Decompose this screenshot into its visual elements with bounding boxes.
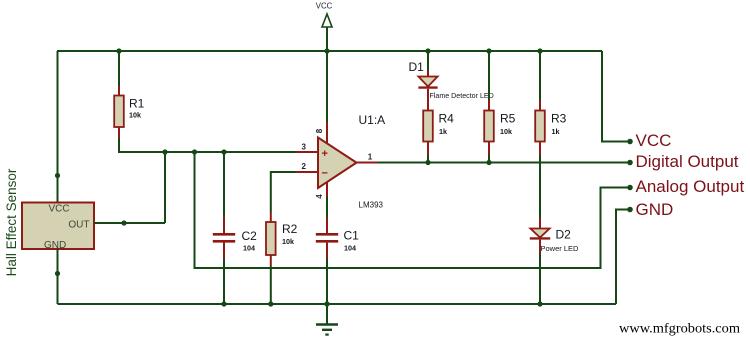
svg-text:U1:A: U1:A bbox=[359, 113, 386, 127]
resistor R2 bbox=[266, 212, 276, 266]
node: dot on left vertical bbox=[55, 173, 60, 178]
node: dot on sensor GND wire bbox=[55, 271, 60, 276]
svg-text:3: 3 bbox=[302, 143, 307, 152]
svg-text:www.mfgrobots.com: www.mfgrobots.com bbox=[619, 322, 740, 337]
node: dot on OUT row bbox=[121, 220, 126, 225]
svg-text:Power LED: Power LED bbox=[541, 244, 580, 253]
wire: C2 column upper bbox=[223, 152, 225, 217]
wire: C2 column lower to ground rail bbox=[223, 259, 225, 304]
wire: top VCC rail bbox=[57, 50, 602, 52]
wire: analog riser and run to right bbox=[195, 152, 631, 268]
svg-text:10k: 10k bbox=[282, 237, 294, 246]
svg-text:2: 2 bbox=[302, 162, 307, 171]
svg-text:Flame Detector LED: Flame Detector LED bbox=[430, 92, 494, 100]
wire: R4 bottom to output row bbox=[427, 155, 429, 163]
resistor R4 bbox=[423, 111, 433, 156]
wire: R1 bottom to pin3 row corner bbox=[119, 138, 296, 152]
wire: R1 column from rail bbox=[118, 51, 120, 86]
wire: D1 column from rail bbox=[427, 51, 429, 70]
svg-text:104: 104 bbox=[243, 243, 255, 252]
ground symbol bbox=[316, 304, 338, 335]
wire: R3 bottom down to D2 (crosses output row) bbox=[539, 155, 541, 218]
svg-text:104: 104 bbox=[344, 243, 356, 252]
svg-text:R3: R3 bbox=[551, 112, 567, 126]
wire: C1 bottom to ground rail bbox=[326, 259, 328, 304]
svg-text:OUT: OUT bbox=[68, 220, 89, 231]
wire: sensor GND pin down to ground rail bbox=[57, 249, 59, 304]
svg-text:D2: D2 bbox=[556, 227, 572, 241]
diode D2 (LED) bbox=[530, 218, 550, 253]
capacitor C1 bbox=[316, 217, 338, 259]
wire: R5 bottom to output row bbox=[488, 155, 490, 163]
node: junction analog riser / pin3 row bbox=[192, 149, 197, 154]
svg-text:1k: 1k bbox=[552, 127, 560, 136]
op-amp U1:A pin 2 stub bbox=[296, 171, 319, 173]
svg-text:+: + bbox=[322, 148, 328, 160]
resistor R3 bbox=[535, 100, 545, 155]
svg-text:10k: 10k bbox=[500, 127, 512, 136]
svg-text:R5: R5 bbox=[500, 112, 516, 126]
wire: D2 bottom to ground rail bbox=[539, 253, 541, 304]
wire: right elbow up to GND terminal bbox=[616, 210, 630, 305]
op-amp U1:A pin 1 stub bbox=[357, 162, 378, 164]
wire: bottom ground rail bbox=[58, 303, 617, 305]
op-amp U1:A pin 8 stub bbox=[326, 122, 328, 144]
wire: OUT riser up to pin3 row bbox=[164, 152, 166, 223]
node: junction D2 / bottom rail bbox=[537, 301, 542, 306]
node: VCC terminal dot bbox=[627, 139, 633, 145]
op-amp U1:A pin 4 stub bbox=[326, 182, 328, 197]
node: junction R4 / output row bbox=[425, 160, 430, 165]
svg-text:R4: R4 bbox=[439, 112, 455, 126]
wire: op-amp output row (Digital Output) bbox=[378, 162, 631, 164]
resistor R5 bbox=[484, 100, 494, 155]
svg-text:1k: 1k bbox=[439, 127, 447, 136]
wire: pin4 column to C1 bbox=[326, 196, 328, 217]
node: junction D1 / top rail bbox=[425, 48, 430, 53]
node: junction R1 / top rail bbox=[116, 48, 121, 53]
op-amp U1:A triangle body bbox=[318, 138, 357, 189]
svg-text:R1: R1 bbox=[129, 97, 145, 111]
svg-text:GND: GND bbox=[636, 200, 674, 219]
svg-text:Hall Effect Sensor: Hall Effect Sensor bbox=[4, 168, 19, 276]
svg-text:C2: C2 bbox=[242, 229, 258, 243]
node: junction C2 / bottom rail bbox=[221, 301, 226, 306]
svg-text:VCC: VCC bbox=[48, 204, 69, 215]
node: Analog Output terminal dot bbox=[627, 185, 633, 191]
node: Digital Output terminal dot bbox=[627, 160, 633, 166]
resistor R1 bbox=[114, 86, 124, 138]
svg-text:GND: GND bbox=[44, 240, 66, 251]
svg-text:1: 1 bbox=[368, 153, 373, 162]
svg-text:Analog Output: Analog Output bbox=[636, 177, 745, 196]
node: junction VCC arrow / top rail bbox=[324, 48, 329, 53]
node: junction OUT riser / pin3 row bbox=[162, 149, 167, 154]
node: GND terminal dot bbox=[627, 207, 633, 213]
wire: top-right elbow down to VCC terminal bbox=[602, 51, 630, 142]
wire: R5 column from rail bbox=[488, 51, 490, 100]
node: junction R5 / top rail bbox=[486, 48, 491, 53]
power symbol: VCC arrow bbox=[322, 14, 332, 51]
svg-text:4: 4 bbox=[315, 194, 324, 199]
svg-text:C1: C1 bbox=[344, 229, 360, 243]
svg-text:10k: 10k bbox=[129, 111, 141, 120]
node: junction C2 / pin3 row bbox=[221, 149, 226, 154]
wire: VCC arrow column down to op-amp power pin bbox=[326, 51, 328, 122]
svg-text:VCC: VCC bbox=[636, 131, 672, 150]
component: Hall Effect Sensor box bbox=[22, 203, 94, 250]
op-amp U1:A pin 3 stub bbox=[296, 151, 319, 153]
node: junction R3 / top rail bbox=[537, 48, 542, 53]
wire: sensor OUT row bbox=[94, 222, 165, 224]
wire: R3 column from rail bbox=[539, 51, 541, 100]
svg-text:−: − bbox=[322, 168, 328, 180]
capacitor C2 bbox=[213, 217, 235, 259]
wire: left vertical from rail to sensor VCC pin bbox=[57, 51, 59, 203]
node: junction R5 / output row bbox=[486, 160, 491, 165]
svg-text:D1: D1 bbox=[409, 60, 425, 74]
wire: R2 bottom to ground rail bbox=[270, 266, 272, 304]
svg-text:LM393: LM393 bbox=[359, 201, 384, 210]
svg-text:Digital Output: Digital Output bbox=[636, 152, 739, 171]
diode D1 (LED) bbox=[418, 70, 437, 111]
node: junction C1 / bottom rail bbox=[324, 301, 329, 306]
node: junction R2 / bottom rail bbox=[268, 301, 273, 306]
svg-text:R2: R2 bbox=[282, 222, 298, 236]
svg-text:8: 8 bbox=[315, 128, 324, 133]
wire: pin2 corner and run bbox=[271, 172, 296, 212]
svg-text:VCC: VCC bbox=[316, 1, 333, 10]
